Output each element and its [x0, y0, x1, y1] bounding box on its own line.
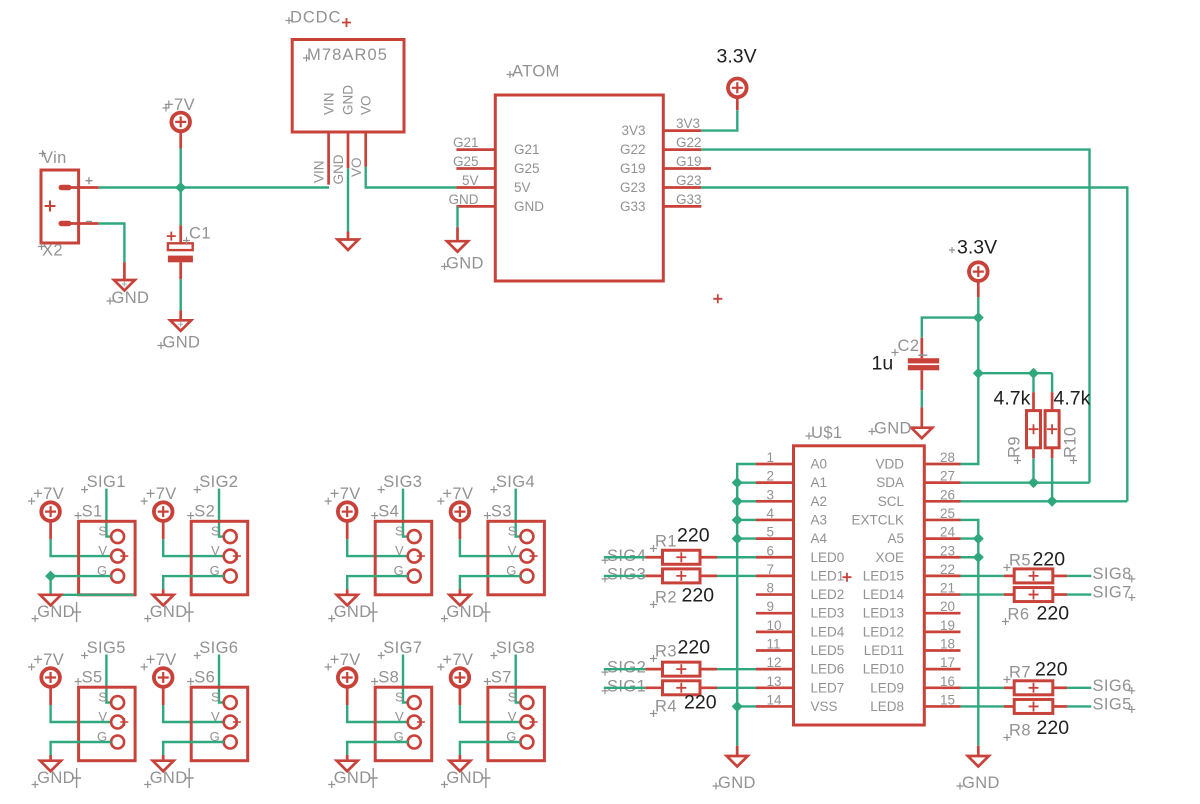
- svg-text:VO: VO: [349, 157, 364, 177]
- svg-text:10: 10: [767, 618, 782, 633]
- label GND (S4): [328, 602, 378, 622]
- svg-text:S8: S8: [378, 669, 399, 687]
- svg-text:S: S: [395, 523, 404, 538]
- pin G (S3): [506, 563, 533, 583]
- ground (S8): [337, 755, 358, 771]
- label GND (S3): [441, 602, 491, 622]
- pin 26 (SCL): [924, 500, 960, 503]
- supply +7V (S3): [437, 485, 473, 539]
- label R1: [650, 533, 677, 553]
- svg-text:G19: G19: [620, 161, 646, 176]
- resistor R6 220: [1004, 588, 1068, 602]
- wire +7V to V pin: [347, 705, 408, 722]
- pin 17 (LED10): [924, 668, 960, 671]
- svg-text:27: 27: [940, 469, 955, 484]
- svg-text:+7V: +7V: [146, 651, 177, 669]
- svg-text:1u: 1u: [872, 353, 894, 375]
- svg-text:SIG7: SIG7: [383, 639, 422, 657]
- svg-text:+7V: +7V: [330, 651, 361, 669]
- svg-text:VIN: VIN: [321, 92, 336, 115]
- wire G to GND (S7): [460, 742, 521, 755]
- svg-text:S3: S3: [491, 503, 512, 521]
- wire R7 to SIG6: [1067, 687, 1091, 689]
- svg-text:9: 9: [767, 599, 775, 614]
- svg-text:SIG6: SIG6: [1093, 677, 1132, 695]
- wire +7V to V pin: [51, 539, 112, 556]
- svg-text:VIN: VIN: [311, 160, 326, 183]
- svg-text:GND: GND: [446, 603, 484, 621]
- svg-text:14: 14: [767, 692, 783, 707]
- svg-text:5: 5: [767, 525, 775, 540]
- pin 12 (LED6): [756, 668, 794, 671]
- svg-text:LED0: LED0: [811, 550, 845, 565]
- pin 13 (LED7): [756, 686, 794, 689]
- svg-text:+7V: +7V: [164, 96, 195, 114]
- node bus pin 14: [732, 701, 743, 712]
- wire R8 to SIG5: [1067, 705, 1091, 707]
- wire +7V to V pin: [460, 705, 521, 722]
- svg-text:R10: R10: [1062, 427, 1080, 458]
- pin G25 (ATOM left): [456, 167, 495, 170]
- wire 3.3V to pullups: [978, 372, 1052, 374]
- wire EXTCLK bus: [961, 520, 979, 746]
- ground (DCDC): [338, 232, 359, 251]
- svg-text:X2: X2: [42, 242, 63, 260]
- svg-text:LED3: LED3: [811, 606, 845, 621]
- pin 28 (VDD): [924, 463, 960, 466]
- node bus pin 2: [732, 477, 743, 488]
- svg-text:GND: GND: [37, 769, 75, 787]
- label R7: [1004, 664, 1031, 684]
- svg-text:S: S: [395, 689, 404, 704]
- wire bus to pin 5: [737, 537, 756, 539]
- svg-text:S: S: [211, 689, 220, 704]
- node bus pin 5: [732, 533, 743, 544]
- svg-text:S2: S2: [194, 503, 215, 521]
- svg-text:GND: GND: [874, 420, 912, 438]
- wire +7V to V pin: [163, 705, 224, 722]
- pin G23 (ATOM right): [663, 186, 701, 189]
- svg-text:3: 3: [767, 487, 775, 502]
- svg-text:S7: S7: [491, 669, 512, 687]
- svg-text:+7V: +7V: [442, 651, 473, 669]
- pin X2-2 (-): [71, 222, 99, 224]
- svg-text:R1: R1: [655, 533, 677, 551]
- wire ATOM GND down: [456, 206, 458, 227]
- supply +7V (top): [163, 96, 196, 149]
- pin 2 (A1): [756, 481, 794, 484]
- label SIG2 (switch S2): [194, 473, 239, 493]
- wire +7V to V pin: [460, 539, 521, 556]
- pin 10 (LED4): [756, 630, 794, 633]
- svg-text:12: 12: [767, 655, 782, 670]
- svg-text:SIG6: SIG6: [199, 639, 238, 657]
- svg-text:220: 220: [682, 585, 715, 607]
- pin V (S4): [395, 543, 425, 563]
- label R8: [1004, 722, 1031, 742]
- wire R9 to SDA: [1032, 458, 1034, 482]
- svg-text:A4: A4: [811, 531, 828, 546]
- svg-text:G22: G22: [676, 135, 702, 150]
- wire SIG8 to S pin: [516, 655, 521, 703]
- resistor R2 220: [645, 569, 717, 583]
- pin 19 (LED12): [924, 630, 960, 633]
- wire G to GND (S8): [347, 742, 408, 755]
- wire 3.3V down: [977, 297, 979, 317]
- label GND (S8): [328, 768, 378, 788]
- svg-text:R9: R9: [1006, 436, 1024, 458]
- svg-text:220: 220: [1037, 717, 1070, 739]
- connector X2 (Vin screw terminal): [41, 170, 79, 243]
- svg-text:LED4: LED4: [811, 624, 845, 639]
- svg-text:+7V: +7V: [146, 485, 177, 503]
- wire pin to R7: [961, 687, 1004, 689]
- svg-text:220: 220: [677, 525, 710, 547]
- pin 14 (VSS): [756, 705, 794, 708]
- svg-text:220: 220: [1033, 549, 1066, 571]
- origin cross U$1: [843, 573, 852, 582]
- svg-text:LED7: LED7: [811, 680, 845, 695]
- svg-text:V: V: [508, 543, 517, 558]
- label SIG4 (switch S3): [490, 473, 535, 493]
- label S8: [371, 669, 399, 687]
- supply +7V (S7): [437, 651, 473, 705]
- svg-text:V: V: [508, 709, 517, 724]
- svg-text:GND: GND: [37, 603, 75, 621]
- pin 6 (LED0): [756, 556, 794, 559]
- pin S (S1): [98, 523, 124, 543]
- svg-text:C1: C1: [189, 225, 211, 243]
- svg-text:+7V: +7V: [330, 485, 361, 503]
- svg-text:220: 220: [1035, 659, 1068, 681]
- wire to R10: [1051, 373, 1053, 392]
- node 3.3V/C2: [973, 312, 984, 323]
- label SIG3 (switch S4): [378, 473, 423, 493]
- svg-text:S: S: [211, 523, 220, 538]
- label GND (S7): [441, 768, 491, 788]
- wire bus to pin 3: [737, 500, 756, 502]
- svg-text:R2: R2: [655, 589, 677, 607]
- svg-text:GND: GND: [446, 255, 484, 273]
- svg-text:R5: R5: [1009, 552, 1031, 570]
- label R2: [650, 589, 677, 609]
- svg-text:26: 26: [940, 487, 955, 502]
- supply +7V (S5): [28, 651, 64, 705]
- label GND (S1): [32, 602, 82, 622]
- node bus pin 4: [732, 514, 743, 525]
- label R6: [1002, 606, 1029, 626]
- label SIG5 (switch S5): [81, 639, 126, 659]
- wire R6 to SIG7: [1067, 593, 1091, 595]
- pin S (S8): [395, 689, 421, 709]
- pin 3V3 (ATOM right): [663, 129, 701, 132]
- regulator DCDC M78AR05 body: [292, 40, 404, 133]
- label SIG7: [1093, 584, 1136, 602]
- label S4: [371, 503, 399, 521]
- pin G (S8): [394, 729, 421, 749]
- svg-text:G33: G33: [676, 192, 702, 207]
- svg-text:SIG1: SIG1: [607, 677, 646, 695]
- wire R10 to SCL: [1051, 458, 1053, 501]
- svg-text:V: V: [395, 543, 404, 558]
- wire SIG3 stub: [604, 575, 646, 577]
- supply 3.3V (top): [717, 46, 757, 111]
- wire R3 to pin: [717, 668, 756, 670]
- svg-text:LED15: LED15: [863, 568, 904, 583]
- wire SIG3 to S pin: [403, 489, 408, 537]
- svg-text:S4: S4: [378, 503, 399, 521]
- label C2: [892, 337, 920, 356]
- svg-text:7: 7: [767, 562, 775, 577]
- module ATOM body: [495, 95, 663, 281]
- svg-text:2: 2: [767, 469, 775, 484]
- supply 3.3V (mid): [949, 237, 997, 298]
- svg-text:SIG4: SIG4: [607, 547, 646, 565]
- pin G21 (ATOM left): [456, 148, 495, 151]
- svg-text:3.3V: 3.3V: [957, 237, 997, 259]
- svg-text:4.7k: 4.7k: [994, 388, 1031, 410]
- wire 3V3 to 3.3V supply: [701, 110, 737, 130]
- pin 8 (LED2): [756, 593, 794, 596]
- wire +7V to V pin: [163, 539, 224, 556]
- svg-text:15: 15: [940, 692, 955, 707]
- label R9: [1006, 436, 1024, 464]
- label R10: [1062, 427, 1080, 464]
- wire +7V to V pin: [51, 705, 112, 722]
- pin 18 (LED11): [924, 649, 960, 652]
- svg-text:LED10: LED10: [863, 662, 904, 677]
- wire R4 to pin: [717, 687, 756, 689]
- wire bus to pin 14: [737, 705, 756, 707]
- svg-text:S: S: [508, 523, 517, 538]
- svg-text:R7: R7: [1009, 664, 1031, 682]
- svg-text:SIG3: SIG3: [383, 473, 422, 491]
- svg-text:+7V: +7V: [442, 485, 473, 503]
- svg-text:220: 220: [684, 692, 717, 714]
- label S3: [484, 503, 512, 521]
- pin G (S1): [97, 563, 124, 583]
- svg-text:4: 4: [767, 506, 775, 521]
- label ATOM: [507, 63, 560, 81]
- pin 16 (LED9): [924, 686, 960, 689]
- pin G (S7): [506, 729, 533, 749]
- label SIG8 (switch S7): [490, 639, 535, 659]
- svg-text:220: 220: [1037, 603, 1070, 625]
- svg-text:28: 28: [940, 450, 955, 465]
- svg-text:A2: A2: [811, 494, 828, 509]
- svg-text:18: 18: [940, 637, 955, 652]
- wire pin to R5: [961, 575, 1004, 577]
- wire C1 to GND: [179, 279, 181, 310]
- wire +7V to V pin: [347, 539, 408, 556]
- wire pin to R6: [961, 593, 1004, 595]
- svg-text:GND: GND: [718, 774, 756, 792]
- wire net G22/SDA: [701, 150, 1089, 483]
- svg-text:S6: S6: [194, 669, 215, 687]
- wire R5 to SIG8: [1067, 575, 1091, 577]
- svg-text:G21: G21: [514, 142, 540, 157]
- IC U$1 body: [794, 446, 925, 725]
- wire 3.3V to C2: [922, 318, 979, 338]
- svg-text:11: 11: [767, 637, 781, 652]
- wire G to GND (S4): [347, 576, 408, 589]
- svg-text:GND: GND: [334, 769, 372, 787]
- wire SIG5 to S pin: [106, 655, 111, 703]
- svg-text:3V3: 3V3: [621, 123, 645, 138]
- supply +7V (S2): [141, 485, 177, 539]
- svg-text:V: V: [211, 543, 220, 558]
- wire SIG2 to S pin: [219, 489, 224, 537]
- pin X2-1 (+): [71, 177, 99, 187]
- switch S3 body: [488, 521, 545, 595]
- svg-text:LED8: LED8: [870, 699, 904, 714]
- pin 7 (LED1): [756, 575, 794, 578]
- label R4: [650, 698, 677, 718]
- ground (S5): [40, 755, 61, 771]
- svg-text:SIG1: SIG1: [87, 473, 126, 491]
- ground GND (C2): [869, 407, 933, 438]
- switch S6 body: [191, 687, 248, 761]
- svg-text:5V: 5V: [462, 173, 479, 188]
- pin 1 (A0): [756, 463, 794, 466]
- origin cross (stray, red): [713, 294, 722, 303]
- svg-text:LED9: LED9: [870, 680, 904, 695]
- svg-text:SIG8: SIG8: [1093, 565, 1132, 583]
- wire G to GND (S3): [460, 576, 521, 589]
- svg-text:VO: VO: [358, 95, 373, 115]
- ground (S4): [337, 589, 358, 605]
- pin 21 (LED14): [924, 593, 960, 596]
- svg-text:GND: GND: [962, 774, 1000, 792]
- svg-text:XOE: XOE: [875, 550, 904, 565]
- svg-text:G25: G25: [453, 154, 479, 169]
- svg-text:LED5: LED5: [811, 643, 845, 658]
- svg-text:A5: A5: [887, 531, 904, 546]
- wire A0-A4/VSS bus: [737, 464, 756, 746]
- ground GND (X2): [107, 262, 150, 307]
- pin G33 (ATOM right): [663, 205, 701, 208]
- svg-text:G25: G25: [514, 161, 540, 176]
- label SIG2: [602, 659, 647, 677]
- wire pin to R8: [961, 705, 1004, 707]
- svg-text:GND: GND: [150, 603, 188, 621]
- wire R1 to pin: [717, 556, 756, 558]
- ground (S1): [40, 595, 61, 606]
- svg-text:4.7k: 4.7k: [1054, 388, 1091, 410]
- node bus pin 24: [973, 533, 984, 544]
- wire G to GND (S6): [163, 742, 224, 755]
- svg-text:6: 6: [767, 543, 775, 558]
- pin 4 (A3): [756, 519, 794, 522]
- ground GND (ATOM): [441, 227, 484, 272]
- supply +7V (S8): [325, 651, 361, 705]
- resistor R4 220: [645, 681, 717, 695]
- svg-text:LED14: LED14: [863, 587, 905, 602]
- pin S (S3): [508, 523, 534, 543]
- pin S (S7): [508, 689, 534, 709]
- node SDA/R9: [1028, 477, 1039, 488]
- capacitor C2 1u: [908, 338, 939, 390]
- wire bus to pin 4: [737, 519, 756, 521]
- label S1: [75, 503, 103, 521]
- svg-text:SIG8: SIG8: [496, 639, 535, 657]
- svg-text:S1: S1: [82, 503, 103, 521]
- node G corner (S1): [45, 571, 56, 582]
- svg-text:19: 19: [940, 618, 955, 633]
- pin G (S5): [97, 729, 124, 749]
- resistor R3 220: [645, 662, 717, 676]
- label Vin: [39, 149, 67, 167]
- svg-text:SIG2: SIG2: [607, 659, 646, 677]
- svg-text:R4: R4: [655, 698, 677, 716]
- pin 5 (A4): [756, 537, 794, 540]
- wire bus to pin 23: [961, 556, 979, 558]
- svg-text:LED6: LED6: [811, 662, 845, 677]
- wire SIG6 to S pin: [219, 655, 224, 703]
- svg-text:V: V: [211, 709, 220, 724]
- svg-text:GND: GND: [341, 85, 356, 115]
- wire SCL: [961, 500, 1128, 502]
- label SIG3: [602, 565, 647, 583]
- pin G (S6): [210, 729, 237, 749]
- supply +7V (S6): [141, 651, 177, 705]
- svg-text:G33: G33: [620, 199, 646, 214]
- wire SIG4 to S pin: [516, 489, 521, 537]
- pin GND (ATOM left): [456, 205, 495, 208]
- svg-text:S: S: [98, 689, 107, 704]
- wire X2+ to DCDC VIN: [99, 186, 329, 188]
- ground GND (U$1 right): [957, 746, 1000, 792]
- svg-text:GND: GND: [334, 603, 372, 621]
- wire node down to C1: [179, 188, 181, 226]
- label SIG1 (switch S1): [81, 473, 126, 493]
- wire SIG7 to S pin: [403, 655, 408, 703]
- svg-text:Vin: Vin: [42, 149, 67, 167]
- pin VIN: [327, 132, 330, 185]
- label R5: [1004, 552, 1031, 572]
- wire G to GND (S1): [51, 576, 112, 595]
- wire X2- to GND: [99, 224, 125, 263]
- svg-text:SIG5: SIG5: [87, 639, 126, 657]
- svg-text:25: 25: [940, 506, 955, 521]
- svg-text:SIG5: SIG5: [1093, 695, 1132, 713]
- pin G (S4): [394, 563, 421, 583]
- switch S2 body: [191, 521, 248, 595]
- svg-text:U$1: U$1: [811, 424, 842, 442]
- svg-text:GND: GND: [163, 334, 201, 352]
- wire G to GND (S2): [163, 576, 224, 589]
- node junction at +7V/C1: [175, 182, 186, 193]
- svg-text:20: 20: [940, 599, 955, 614]
- ground GND (C1): [158, 310, 201, 351]
- label S5: [75, 669, 103, 687]
- pin 11 (LED5): [756, 649, 794, 652]
- pin 25 (EXTCLK): [924, 519, 960, 522]
- label C1: [183, 225, 211, 245]
- ground (S3): [449, 589, 470, 605]
- svg-text:M78AR05: M78AR05: [307, 46, 388, 64]
- label SIG7 (switch S8): [378, 639, 423, 659]
- pin 22 (LED15): [924, 575, 960, 578]
- ground (S7): [449, 755, 470, 771]
- wire SIG4 stub: [604, 556, 646, 558]
- wire 3.3V trunk down: [977, 318, 979, 374]
- label SIG5: [1093, 695, 1136, 713]
- resistor R5 220: [1004, 569, 1068, 583]
- svg-text:VDD: VDD: [875, 457, 904, 472]
- svg-text:ATOM: ATOM: [512, 63, 560, 81]
- pin 24 (A5): [924, 537, 960, 540]
